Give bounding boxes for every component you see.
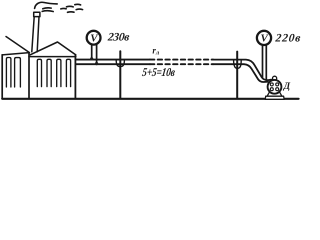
- ground: [2, 98, 298, 100]
- voltmeter PV2: [257, 31, 271, 45]
- svg-text:Д: Д: [283, 82, 291, 92]
- window W2: [15, 58, 21, 87]
- voltmeter PV1 legs: [92, 45, 97, 63]
- motor eyelet: [273, 76, 277, 80]
- motor base neck: [267, 92, 282, 96]
- window W3: [37, 59, 41, 86]
- building left eave: [2, 53, 29, 55]
- junction dot PV1 top wire: [90, 57, 93, 60]
- building right wall: [74, 55, 76, 98]
- motor bolt 2: [276, 83, 279, 86]
- svg-text:230в: 230в: [106, 32, 130, 44]
- chimney cap: [34, 12, 40, 16]
- svg-text:220в: 220в: [274, 33, 302, 45]
- chimney: [32, 17, 39, 52]
- voltmeter PV1: [87, 31, 101, 45]
- motor bolt 3: [270, 88, 273, 91]
- building left roof ridge: [6, 37, 30, 53]
- wire top solid right and bend to motor: [213, 60, 271, 81]
- smoke: [35, 2, 83, 12]
- svg-text:5+5=10в: 5+5=10в: [141, 66, 176, 79]
- voltmeter PV2 legs: [263, 46, 267, 81]
- window W5: [57, 59, 61, 86]
- window W6: [66, 59, 70, 86]
- motor bolt 1: [270, 83, 273, 86]
- insulator on pole P2: [234, 60, 242, 68]
- window W4: [47, 59, 51, 86]
- building left wall: [1, 55, 3, 99]
- junction dot PV1 bottom wire: [95, 62, 98, 65]
- building gable roof: [30, 42, 76, 55]
- insulator on pole P1: [116, 60, 124, 67]
- pole P2: [236, 52, 238, 99]
- wire bottom solid right and bend to motor: [213, 64, 268, 82]
- building right eave: [29, 56, 76, 58]
- wire bottom solid left: [76, 63, 150, 65]
- svg-text:rл: rл: [152, 45, 160, 56]
- motor body: [268, 80, 282, 94]
- window W1: [6, 58, 10, 88]
- motor base slab: [265, 96, 284, 99]
- wire top solid left: [76, 59, 150, 61]
- pole P1: [119, 51, 121, 98]
- wire bottom dashed: [150, 63, 213, 65]
- building section divider: [28, 53, 30, 99]
- wire top dashed: [150, 59, 213, 61]
- motor bolt 4: [276, 88, 279, 91]
